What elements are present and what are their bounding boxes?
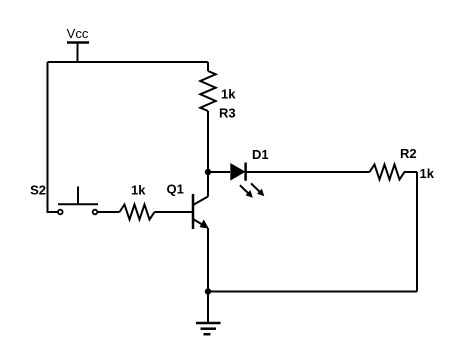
wire left vertical from top wire to switch S2 (48, 62, 59, 212)
svg-text:1k: 1k (131, 183, 146, 198)
wire collector vertical through R3 bottom (207, 111, 209, 197)
svg-text:R2: R2 (400, 146, 417, 161)
resistor R3 (200, 62, 215, 111)
node junction emitter/bottom wire (205, 288, 211, 294)
wire from D1 to R2 (246, 171, 370, 173)
svg-text:1k: 1k (221, 86, 236, 101)
wire from S2 to base resistor (97, 211, 119, 213)
transistor Q1 (NPN) (193, 194, 209, 229)
node junction collector/diode (205, 169, 211, 175)
svg-text:Q1: Q1 (167, 182, 184, 197)
switch S2 (pushbutton) (58, 187, 98, 215)
wire emitter vertical to bottom node (207, 228, 209, 292)
ground (196, 292, 221, 335)
svg-text:S2: S2 (30, 182, 46, 197)
wire from base resistor to Q1 base (155, 211, 193, 213)
resistor R2 (370, 165, 418, 180)
svg-text:1k: 1k (420, 166, 435, 181)
wire from node to diode D1 (208, 171, 230, 173)
wire right vertical from R2 down (416, 172, 418, 292)
LED D1 (230, 163, 264, 198)
svg-text:D1: D1 (252, 147, 269, 162)
resistor 1k (base) (120, 205, 155, 220)
svg-text:Vcc: Vcc (67, 26, 89, 41)
svg-text:R3: R3 (219, 105, 236, 120)
power symbol Vcc (67, 43, 89, 63)
wire top horizontal from Vcc node to R3 (48, 61, 209, 63)
wire bottom horizontal (208, 291, 417, 293)
